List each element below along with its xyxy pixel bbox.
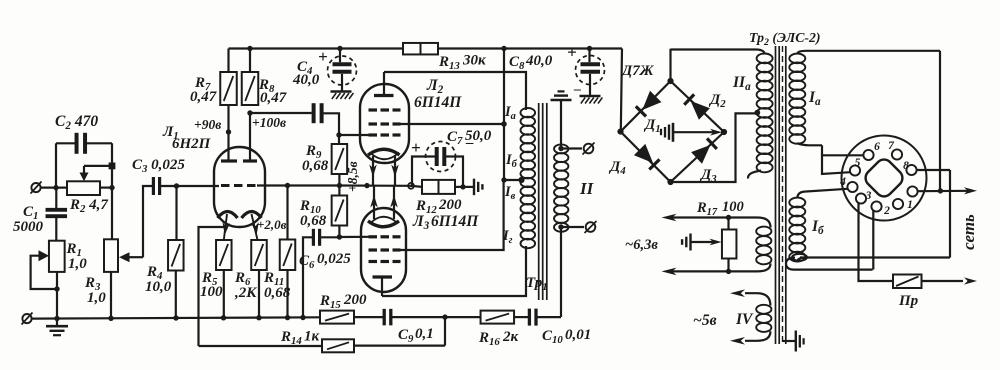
resistor R12 — [411, 180, 466, 194]
label C6 0,025 — [299, 251, 351, 271]
anode of Л2 — [374, 72, 394, 96]
grid wire of Л3 — [339, 236, 370, 238]
pin 7 — [892, 149, 902, 159]
label C8 40,0 — [509, 53, 553, 72]
resistor R16 — [481, 311, 528, 324]
svg-text:0,01: 0,01 — [565, 327, 591, 343]
resistor R15 — [320, 311, 383, 324]
resistor R17 — [722, 215, 737, 274]
resistor R8 — [242, 46, 259, 105]
label Д2 — [708, 92, 726, 110]
transformer Тр1 core — [539, 103, 547, 300]
potentiometer R1 — [49, 241, 65, 272]
label ~5в IV — [693, 311, 754, 329]
label +2,0в — [257, 217, 287, 232]
svg-text:3: 3 — [865, 190, 872, 202]
fuse Пр — [893, 275, 977, 289]
feedback resistor R14 wire — [199, 317, 446, 346]
capacitor C7 electrolytic — [426, 142, 456, 172]
grid wire right of Л1 — [257, 183, 339, 188]
pin label 3 — [865, 190, 872, 202]
svg-text:1к: 1к — [304, 329, 320, 345]
cathode 2 of Л1 — [242, 212, 262, 241]
svg-text:C3 0,025: C3 0,025 — [132, 157, 185, 175]
cathode of Л2 — [368, 149, 400, 159]
wire C3 to grid — [160, 183, 219, 188]
svg-text:2к: 2к — [502, 329, 519, 345]
wire R2 right node — [100, 143, 115, 239]
wire C2 left — [53, 143, 76, 190]
screen wire of Л2 — [400, 121, 507, 126]
secondary bottom tap — [558, 224, 584, 229]
ground inside bridge — [661, 123, 722, 142]
wire rail to + vertex — [621, 49, 622, 132]
pin 5 — [850, 165, 860, 175]
svg-text:6П14П: 6П14П — [414, 94, 462, 111]
svg-text:4: 4 — [839, 176, 846, 188]
input terminal Ø1 — [31, 182, 42, 194]
pin 8 — [906, 165, 916, 175]
label Iв (Тр1) — [504, 184, 516, 202]
svg-text:0,47: 0,47 — [190, 89, 217, 105]
screen wire of Л3 — [400, 180, 504, 250]
label R11 0,68 — [263, 270, 291, 301]
pin label 7 — [888, 140, 895, 152]
terminal Ø3 — [583, 143, 595, 155]
socket circle — [842, 136, 927, 221]
label R7 0,47 — [190, 75, 217, 105]
wire C9 to R16 — [391, 314, 481, 319]
label Iг (Тр1) — [502, 228, 513, 246]
label R2 4,7 — [69, 197, 108, 215]
label R16 2к — [478, 329, 519, 348]
plus sign of C8 — [567, 43, 577, 62]
svg-text:200: 200 — [438, 197, 462, 213]
anode wire of Л2 — [384, 72, 526, 110]
svg-text:+: + — [318, 47, 328, 66]
svg-text:40,0: 40,0 — [525, 53, 553, 69]
ground above secondary — [551, 91, 572, 148]
B+ vertical to center tap — [501, 49, 524, 184]
label R3 1,0 — [84, 275, 106, 306]
winding Ia (Тр2) — [789, 51, 940, 144]
diode Д3 — [691, 138, 717, 163]
label C9 0,1 — [398, 326, 434, 345]
label C3 0,025 — [132, 157, 185, 175]
label Iб (Тр2) — [811, 218, 824, 237]
wire pin3 to fuse — [859, 203, 894, 281]
svg-text:+: + — [411, 138, 421, 157]
svg-text:6: 6 — [874, 141, 880, 153]
wire Ia bottom to socket — [797, 143, 863, 174]
label C7 50,0 — [447, 128, 492, 147]
mains riser right — [939, 51, 941, 191]
svg-text:,2К: ,2К — [234, 285, 257, 301]
label +90в — [194, 117, 221, 132]
wire pin9 to mains — [918, 187, 978, 194]
label ~6,3в — [625, 237, 658, 253]
terminal Ø4 — [585, 221, 597, 233]
anode 2 of Л1 — [243, 110, 257, 161]
label Iб (Тр1) — [505, 152, 518, 170]
wire pin8 — [917, 170, 951, 258]
label Д7Ж — [620, 63, 655, 79]
grid g3 of Л2 — [369, 108, 401, 111]
svg-text:~6,3в: ~6,3в — [625, 237, 658, 253]
transformer Тр2 core — [776, 46, 786, 344]
ground bus — [33, 315, 321, 321]
svg-text:100: 100 — [722, 199, 744, 215]
svg-text:5: 5 — [855, 157, 861, 169]
tube Л2 envelope — [360, 84, 409, 163]
wire +100в — [250, 112, 312, 114]
label Ia (Тр1) — [504, 104, 516, 122]
label R12 200 — [415, 197, 462, 216]
capacitor C6 — [313, 229, 319, 246]
capacitor C9 — [384, 309, 391, 326]
grid wire of Л2 — [339, 134, 370, 136]
resistor R7 — [220, 49, 237, 106]
feedback tap wire — [199, 227, 227, 346]
label Ia (Тр2) — [808, 89, 821, 108]
svg-text:IV: IV — [735, 311, 754, 328]
pin 2 — [871, 201, 881, 211]
svg-text:1,0: 1,0 — [87, 290, 106, 306]
tube Л3 envelope — [361, 208, 406, 292]
winding 5в IV — [745, 293, 771, 341]
label Д1 — [643, 117, 661, 135]
wire pin2 down — [872, 210, 874, 270]
svg-text:0,68: 0,68 — [264, 285, 291, 301]
resistor R13 — [403, 43, 438, 55]
heater wire arrows 5в — [730, 289, 745, 344]
label Л2 — [426, 77, 444, 96]
capacitor C5 — [314, 103, 322, 123]
potentiometer R3 — [104, 239, 118, 318]
pin 4 — [847, 182, 857, 192]
wire input to R2 — [42, 187, 68, 189]
transformer Тр1 primary — [521, 108, 536, 248]
label IIa — [732, 74, 751, 93]
label C10 0,01 — [542, 327, 591, 346]
pin label 4 — [839, 176, 846, 188]
label +100в — [252, 115, 286, 130]
svg-text:10,0: 10,0 — [145, 279, 172, 295]
svg-text:2: 2 — [883, 205, 890, 217]
svg-text:–: – — [573, 82, 581, 97]
AC wire top vertex — [669, 49, 671, 81]
svg-text:1: 1 — [907, 199, 913, 211]
capacitor C3 — [153, 177, 159, 195]
label Д3 — [699, 167, 717, 185]
cathode leads of Л2 — [369, 156, 399, 186]
pin label 2 — [883, 205, 890, 217]
cathode node wire — [339, 183, 414, 189]
wire R9-R10 node — [337, 174, 342, 196]
capacitor C8 electrolytic — [576, 49, 605, 97]
anode of Л3 — [373, 277, 393, 296]
label сеть — [959, 214, 978, 250]
capacitor C4 electrolytic — [328, 49, 357, 92]
wiper of R3 — [119, 186, 152, 262]
diode Д4 — [634, 144, 660, 170]
svg-text:6П14П: 6П14П — [431, 213, 479, 230]
capacitor C2 — [77, 133, 86, 154]
svg-text:5000: 5000 — [13, 219, 44, 235]
capacitor C1 — [46, 188, 68, 241]
svg-text:+2,0в: +2,0в — [257, 217, 287, 232]
grid g1 of Л2 — [369, 133, 401, 136]
pin label 6 — [874, 141, 880, 153]
cathode 1 of Л1 — [218, 212, 238, 241]
grid of Л1 (dashes) — [221, 184, 256, 187]
svg-text:Пр: Пр — [898, 293, 919, 309]
ground right of R12 — [463, 179, 482, 196]
socket key — [862, 156, 906, 200]
cathode leads of Л3 — [370, 186, 398, 219]
svg-text:~5в: ~5в — [693, 312, 717, 329]
label R13 30к — [438, 53, 486, 73]
pin 9 — [907, 186, 917, 196]
wire C5 to R9 — [322, 113, 342, 144]
winding Iб end hairpin — [786, 254, 950, 270]
winding 6,3в — [668, 218, 771, 272]
label Тр1 — [526, 275, 548, 293]
wire C6 right — [320, 236, 340, 238]
svg-text:сеть: сеть — [959, 214, 978, 250]
label Л1 6Н2П — [162, 124, 212, 152]
diode Д1 — [636, 91, 662, 117]
screen grid g2 of Л2 — [369, 122, 401, 125]
label R15 200 — [319, 292, 367, 311]
resistor R6 — [251, 240, 267, 318]
bridge edges — [617, 78, 727, 185]
label Д4 — [608, 159, 626, 177]
resistor R9 — [332, 144, 348, 174]
tube Л1 envelope — [214, 147, 265, 227]
pin label 5 — [855, 157, 861, 169]
label C1 5000 — [13, 204, 44, 235]
resistor R10 — [332, 196, 348, 226]
label R8 0,47 — [258, 77, 287, 106]
svg-text:8: 8 — [903, 160, 909, 172]
label R4 10,0 — [145, 264, 172, 295]
svg-text:+90в: +90в — [194, 117, 221, 132]
pin label 8 — [903, 160, 909, 172]
svg-text:Д7Ж: Д7Ж — [620, 63, 655, 79]
top supply rail — [229, 46, 623, 51]
svg-text:C2 470: C2 470 — [55, 113, 98, 132]
pin 1 — [893, 199, 903, 209]
wire C6 left to ground — [303, 237, 313, 317]
wire C7 loop — [412, 157, 463, 188]
anode wire of Л3 — [382, 246, 526, 296]
wire C2 right — [85, 142, 112, 144]
label +8,5в — [345, 161, 360, 192]
svg-text:1,0: 1,0 — [68, 256, 87, 272]
transformer Тр1 secondary — [554, 144, 568, 231]
label 6П14П (Л2) — [414, 94, 462, 111]
label R9 0,68 — [302, 143, 329, 174]
pin label 1 — [907, 199, 913, 211]
label II — [579, 179, 595, 198]
svg-text:0,1: 0,1 — [415, 326, 434, 342]
svg-text:40,0: 40,0 — [292, 72, 320, 88]
svg-text:200: 200 — [343, 292, 367, 308]
label R10 0,68 — [299, 198, 327, 229]
ground at input — [46, 319, 68, 336]
ground below C8 — [580, 96, 603, 104]
svg-text:100: 100 — [200, 284, 223, 300]
plus sign of C7 — [411, 138, 421, 157]
screen grid g2 of Л3 — [369, 248, 401, 251]
label R14 1к — [280, 329, 320, 348]
minus sign of C7 — [465, 135, 474, 151]
resistor R11 — [280, 186, 296, 318]
svg-text:0,47: 0,47 — [260, 90, 287, 106]
hum balance ground — [682, 234, 721, 251]
wire R10 bottom — [337, 226, 342, 240]
anode 1 of Л1 — [221, 105, 237, 161]
capacitor C10 — [529, 309, 536, 326]
ground below C4 — [331, 92, 354, 100]
grid g3 of Л3 — [369, 260, 401, 263]
terminal Ø2 — [22, 313, 33, 325]
pin 3 — [856, 193, 866, 203]
label Тр2 (ЭЛС-2) — [749, 30, 821, 48]
grid g1 of Л3 — [369, 235, 401, 238]
svg-text:0,68: 0,68 — [300, 213, 327, 229]
AC wire bottom vertex — [671, 110, 761, 182]
minus sign of C8 — [573, 82, 581, 97]
label R17 100 — [696, 199, 744, 218]
svg-text:R2 4,7: R2 4,7 — [69, 197, 108, 215]
cathode of Л3 — [368, 217, 399, 227]
winding IIa open end — [748, 171, 761, 179]
resistor R4 — [168, 186, 184, 318]
svg-text:II: II — [579, 179, 595, 198]
svg-text:0,025: 0,025 — [317, 251, 351, 267]
winding Iб (Тр2) — [789, 189, 847, 262]
secondary top tap — [558, 146, 582, 151]
label C2 470 — [55, 113, 98, 132]
potentiometer R2 — [67, 181, 100, 195]
ground at Тр2 core — [783, 331, 804, 352]
wire R1 bottom — [56, 272, 58, 319]
pin 6 — [863, 150, 873, 160]
svg-text:0,68: 0,68 — [302, 158, 329, 174]
svg-text:+: + — [567, 43, 577, 62]
heater wire arrows 6,3в — [662, 214, 677, 276]
svg-text:+8,5в: +8,5в — [345, 161, 360, 192]
svg-text:+100в: +100в — [252, 115, 286, 130]
feedback line from secondary — [560, 227, 562, 317]
label R5 100 — [200, 270, 223, 300]
label Пр — [898, 293, 919, 309]
wiper of R1 — [31, 250, 60, 291]
label R1 1,0 — [66, 241, 88, 272]
winding IIa — [671, 50, 773, 173]
label Л3 6П14П — [412, 213, 479, 232]
resistor R5 — [216, 240, 232, 318]
label C4 40,0 — [292, 59, 320, 88]
svg-text:30к: 30к — [462, 53, 486, 69]
wire C10 to secondary — [536, 316, 561, 318]
svg-text:6Н2П: 6Н2П — [172, 136, 212, 152]
diode Д2 — [684, 94, 710, 119]
wiper of R2 — [80, 163, 116, 182]
svg-text:–: – — [465, 135, 474, 151]
label R6 2К — [234, 270, 257, 301]
plus sign of C4 — [318, 47, 328, 66]
resistor R14 — [322, 339, 354, 352]
